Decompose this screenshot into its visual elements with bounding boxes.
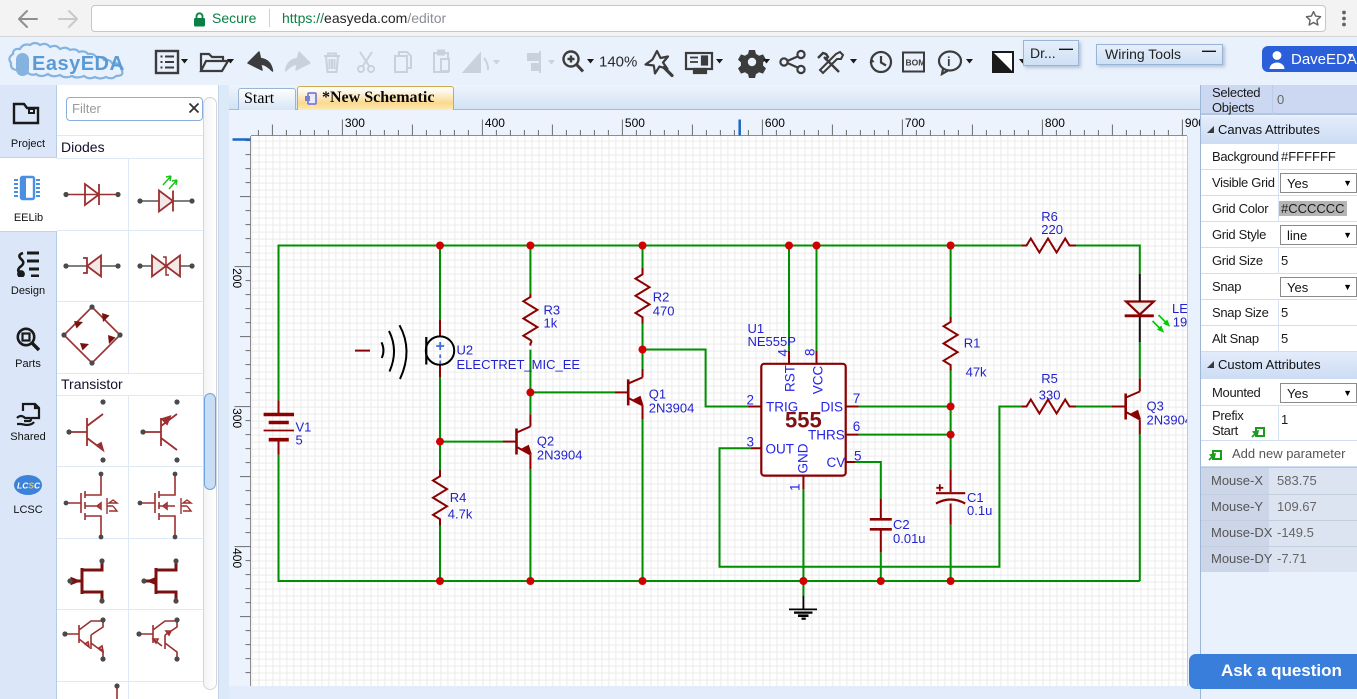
junction RST top rail [785,242,793,250]
info [939,52,961,75]
rulers [251,110,1187,136]
svg-text:330: 330 [1039,388,1061,403]
wire R4 top lead [439,442,441,470]
svg-text:8: 8 [803,348,818,356]
wire R2 bottom to Q1 collector node [642,320,644,350]
wire THRS node to C1 [950,435,952,470]
bridge [64,307,120,363]
svg-text:4.7k: 4.7k [448,506,473,521]
svg-text:Q2: Q2 [537,434,554,449]
svg-text:2N3904: 2N3904 [649,401,695,416]
wire R1 top lead [950,246,952,318]
resistor R3 [523,294,537,346]
svg-text:GND: GND [796,443,811,473]
resistor R6 [1021,239,1076,253]
wire R5 right to Q3 base [1076,406,1112,408]
svg-text:5: 5 [296,433,303,448]
transistor Q1 [615,369,643,419]
protractor (disabled) [464,54,488,72]
theme half square [993,52,1013,72]
svg-text:0.01u: 0.01u [893,531,926,546]
svg-text:200: 200 [230,268,244,288]
wire RST to rail [788,246,790,351]
darlington NPN [65,621,103,658]
svg-text:i: i [947,54,951,69]
IC U1 555 box [761,364,845,476]
canvas [251,136,1187,686]
wire C2 bottom to ground rail [880,552,882,581]
copy [395,52,411,72]
wire mic top [439,246,441,321]
svg-text:220: 220 [1041,222,1063,237]
svg-text:NE555P: NE555P [748,334,796,349]
blue mouse markers [738,120,741,136]
wire Q1 base from R3 node [530,391,615,393]
svg-text:500: 500 [625,116,645,130]
wire R3 top lead [529,246,531,295]
svg-text:U2: U2 [457,343,474,358]
panel config [686,53,712,73]
schottky [65,265,119,267]
LED arrows (bright green) [1153,315,1170,332]
PJFET [144,562,176,600]
wire R2 top lead [642,246,644,269]
wire DIS to R1 node [859,406,951,408]
LED [139,200,193,202]
wand/star [646,51,673,76]
junction VCC top rail [813,242,821,250]
svg-text:R2: R2 [653,290,670,305]
list/menu [156,51,178,73]
BOM [903,53,925,72]
PNP [143,414,177,450]
svg-text:1k: 1k [544,316,558,331]
svg-text:470: 470 [653,304,675,319]
wire left rail lower [278,455,280,582]
wire Q2 emitter to bottom rail [529,469,531,581]
PMOS [139,473,191,538]
svg-text:LCSC: LCSC [17,481,41,491]
wire ground symbol stub [802,581,804,596]
wire CV to C2 [856,462,881,499]
junction C2 bottom rail [877,577,885,585]
darlington PNP [139,621,177,658]
LED leads (black) [1139,274,1141,342]
wire top rail right segment (after R6) [1076,245,1140,247]
redo (disabled) [286,52,311,71]
svg-text:EasyEDA: EasyEDA [32,53,124,75]
wire VCC to rail [816,246,818,351]
mic U2 red stubs [439,320,441,377]
junction mic bottom / Q2 base / R4 [436,438,444,446]
svg-text:47k: 47k [966,365,987,380]
wire TRIG net [643,350,749,407]
svg-text:CV: CV [827,455,846,470]
capacitor C1 leads [950,470,952,525]
LED cathode bar [1125,314,1154,317]
junction GND pin bottom rail [799,577,807,585]
partial next-row symbol at bottom edge [114,683,119,688]
Wiring Tools panel [1096,44,1223,65]
NJFET [70,562,102,600]
DaveEDA button [1262,46,1357,72]
wire GND pin to rail [802,489,804,581]
share [780,51,804,73]
svg-text:900: 900 [1185,116,1200,130]
svg-text:R5: R5 [1041,371,1058,386]
wire bottom rail [279,580,1140,582]
svg-text:600: 600 [765,116,785,130]
svg-text:700: 700 [905,116,925,130]
junction THRS / C1 top [947,431,955,439]
capacitor C1 top plate [936,492,965,494]
scissors [358,52,374,72]
junction R2 bottom / Q1 collector / TRIG net [639,346,647,354]
splitter [218,85,229,699]
library cell grid lines [57,85,204,699]
junction mic top rail [436,242,444,250]
mic U2 floating dash [355,350,370,352]
mouse rows [1201,467,1357,571]
svg-text:400: 400 [485,116,505,130]
toolbar icons [150,48,1040,78]
zoom [564,52,584,72]
svg-text:4: 4 [776,349,791,357]
wire C1 bottom to rail [950,525,952,581]
wire mic bottom to Q2 base node [439,377,441,442]
svg-text:VCC: VCC [810,366,825,395]
junction C1 bottom rail [947,577,955,585]
svg-text:140%: 140% [599,54,637,71]
wire Q3 emitter to bottom rail [1139,434,1141,581]
svg-text:400: 400 [230,548,244,568]
wire LED bottom to Q3 collector [1139,342,1141,378]
svg-text:300: 300 [345,116,365,130]
ground symbol (black) [789,596,817,619]
diode plain [65,184,119,205]
junction R3 top rail [526,242,534,250]
LED D triangle [1126,302,1154,315]
library scrollbar [203,97,217,690]
svg-text:DIS: DIS [821,400,844,415]
wire Q1 emitter to bottom rail [642,419,644,581]
svg-text:300: 300 [230,408,244,428]
tab bar [229,85,1200,110]
wire top rail left segment [279,245,1022,247]
555 pin stubs [748,351,859,489]
NPN [69,414,103,450]
svg-text:2: 2 [747,393,755,408]
wire Q2 base [440,441,503,443]
capacitor C1 plus sign [936,484,943,491]
svg-text:2N3904: 2N3904 [1147,413,1188,428]
paste [434,51,449,73]
svg-text:2N3904: 2N3904 [537,448,583,463]
resistor R4 [433,470,447,526]
svg-text:800: 800 [1045,116,1065,130]
svg-text:6: 6 [853,419,861,434]
junction R2 top rail [639,242,647,250]
EasyEDA logo [6,40,132,82]
left sidebar [0,85,57,699]
junction R3 bottom / Q1 base / Q2 collector [526,388,534,396]
svg-text:0.1u: 0.1u [967,503,992,518]
svg-text:R1: R1 [964,336,981,351]
svg-text:C2: C2 [893,517,910,532]
svg-text:5: 5 [854,449,862,464]
junction R1 top rail [947,242,955,250]
junction R1 bottom / DIS [947,403,955,411]
transistor Q2 [503,414,531,469]
svg-text:1915: 1915 [1173,315,1187,330]
mic U2 symbol (black) [382,325,455,379]
TVS [139,265,193,267]
NMOS [65,473,117,538]
gear [738,50,766,78]
junction R4 bottom rail [436,577,444,585]
wire DIS node to THRS node [950,407,952,435]
svg-text:1: 1 [788,483,803,491]
right panel [1200,85,1357,699]
capacitor C2 plates [870,519,892,529]
wire R3 bottom to Q1 base node [529,350,531,393]
svg-text:7: 7 [853,391,861,406]
svg-text:R4: R4 [450,490,467,505]
capacitor C2 leads [880,499,882,553]
junction Q1 emitter bottom rail [639,577,647,585]
resistor R2 [636,268,650,324]
wire left rail upper [278,245,280,401]
Dr... mini panel [1023,40,1079,66]
svg-text:RST: RST [782,365,797,392]
transistor Q3 [1112,378,1140,434]
junction Q2 emitter bottom rail [526,577,534,585]
wire R1 bottom to DIS node [950,369,952,406]
wire THRS to C1 node [859,434,951,436]
align (disabled) [528,51,540,73]
wire R4 bottom lead [439,525,441,581]
trash [324,54,340,73]
Ask a question button [1189,654,1357,689]
undo [248,52,273,71]
wire node to Q2 collector [529,392,531,414]
resistor R1 [944,317,958,370]
resistor R5 [1021,400,1076,414]
easyeda toolbar [0,37,1357,85]
capacitor C1 bottom curved plate [936,500,965,504]
history [870,52,892,72]
browser chrome [0,0,1357,37]
svg-text:BOM: BOM [906,58,926,68]
svg-text:Q1: Q1 [649,387,666,402]
tools [818,52,843,73]
folder [201,54,228,71]
wire OUT net [720,407,1022,567]
battery V1 leads [278,400,280,454]
wire Q1 collector node down [642,350,644,369]
battery V1 plates [264,413,294,417]
svg-text:555: 555 [785,408,822,433]
svg-text:ELECTRET_MIC_EE: ELECTRET_MIC_EE [457,357,581,372]
library panel [57,85,218,699]
mic U2 polarity marks (blue) [436,342,444,364]
wire LED top [1139,245,1141,275]
svg-text:Q3: Q3 [1147,399,1164,414]
svg-text:3: 3 [747,435,755,450]
svg-text:OUT: OUT [766,442,795,457]
